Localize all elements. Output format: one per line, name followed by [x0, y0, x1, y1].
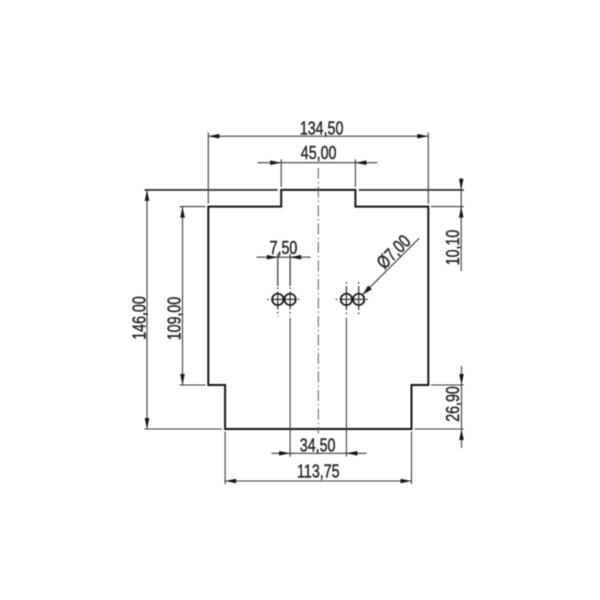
svg-text:26,90: 26,90: [444, 386, 464, 422]
extension line tab-top y=189.9 right: [359, 189, 464, 191]
center mark horizontal right hole pair: [336, 298, 370, 300]
dimension 146,00 line: [146, 190, 148, 429]
extension line x=290.1 (7,50 right, down to hole 2): [289, 254, 291, 286]
dimension 34,50 arrow right (outside, points left): [346, 451, 357, 456]
extension line shoulder y=206.6 right (for 10,10): [431, 206, 464, 208]
extension line x=277.8 (7,50 left, down to hole 1): [277, 254, 279, 286]
dimension 109,00 line: [182, 207, 184, 385]
dimension 113,75 arrow right (inside, points right): [401, 479, 412, 484]
extension line x=355.4 (45,00 right): [354, 159, 356, 187]
hole 4: [353, 294, 364, 305]
dimension 134,50 line: [208, 135, 428, 137]
extension line step y=385 left (for 109,00): [180, 384, 206, 386]
extension line x=208.3 (134,50 left): [207, 133, 209, 204]
centerline vertical (part axis): [317, 168, 319, 434]
part outline: [208, 190, 428, 429]
leader line for diameter 7,00: [363, 238, 420, 295]
center mark horizontal left hole pair: [267, 298, 301, 300]
leader arrowhead at hole 4: [363, 286, 372, 295]
dimension 109,00 arrow top (inside, points up): [180, 207, 185, 218]
extension line x=411.5 (113,75 right): [411, 432, 413, 485]
dimension 34,50 line: [272, 452, 367, 454]
extension line tab-top y=189.9 left: [145, 189, 278, 191]
center mark vertical hole 4: [358, 282, 360, 317]
svg-text:34,50: 34,50: [300, 436, 336, 456]
dimension 26,90 arrow top (outside, points down): [459, 374, 464, 385]
dimension 7,50 arrow right (outside, points left): [290, 255, 301, 260]
dimension 26,90 line: [461, 366, 463, 448]
dimension 45,00 arrow left (outside, points right): [270, 160, 281, 165]
center mark vertical hole 2: [289, 288, 291, 317]
dimension 10,10 line: [460, 178, 462, 271]
dimension 134,50 arrow right: [417, 134, 428, 139]
svg-text:10,10: 10,10: [443, 230, 463, 266]
svg-text:113,75: 113,75: [297, 462, 339, 482]
dimension 45,00 arrow right (outside, points left): [355, 160, 366, 165]
extension line x=225.1 (113,75 left): [224, 432, 226, 485]
dimension 7,50 arrow left (outside, points right): [267, 255, 278, 260]
svg-text:134,50: 134,50: [300, 119, 344, 139]
center mark vertical hole 1: [277, 288, 279, 317]
dimension 10,10 arrow top (outside, points down): [459, 179, 464, 190]
dimension 10,10 arrow bottom (outside, points up): [459, 207, 464, 218]
extension line x=428.3 (134,50 right): [427, 133, 429, 204]
dimension 146,00 arrow bottom (inside, points down): [145, 418, 150, 429]
extension line x=290.1 (34,50 left, hole 2 down): [289, 318, 291, 457]
svg-text:7,50: 7,50: [270, 239, 298, 259]
svg-text:45,00: 45,00: [301, 144, 337, 164]
extension line shoulder y=206.6 left (for 109,00): [180, 206, 206, 208]
dimension 109,00 arrow bottom (inside, points down): [180, 374, 185, 385]
svg-text:146,00: 146,00: [130, 296, 150, 340]
extension line step y=385 right (for 26,90): [431, 384, 464, 386]
extension line x=346.4 (34,50 right, hole 3 down): [345, 318, 347, 457]
center mark vertical hole 3: [345, 282, 347, 317]
hole 1: [272, 294, 283, 305]
dimension 113,75 arrow left (inside, points left): [225, 479, 236, 484]
svg-text:109,00: 109,00: [165, 297, 185, 341]
extension line bottom y=429 right (for 26,90): [414, 428, 463, 430]
dimension 113,75 line: [225, 480, 411, 482]
dimension 34,50 arrow left (outside, points right): [279, 451, 290, 456]
dimension 134,50 arrow left: [208, 134, 219, 139]
hole 3: [341, 294, 352, 305]
extension line x=281.2 (45,00 left): [280, 159, 282, 187]
hole 2: [284, 294, 295, 305]
dimension 26,90 arrow bottom (outside, points up): [459, 429, 464, 440]
dimension 45,00 line: [258, 162, 378, 164]
dimension 146,00 arrow top (inside, points up): [145, 190, 150, 201]
dimension 7,50 line: [257, 256, 311, 258]
svg-text:Ø7,00: Ø7,00: [373, 231, 415, 273]
extension line bottom y=429 left (for 146,00): [145, 428, 223, 430]
